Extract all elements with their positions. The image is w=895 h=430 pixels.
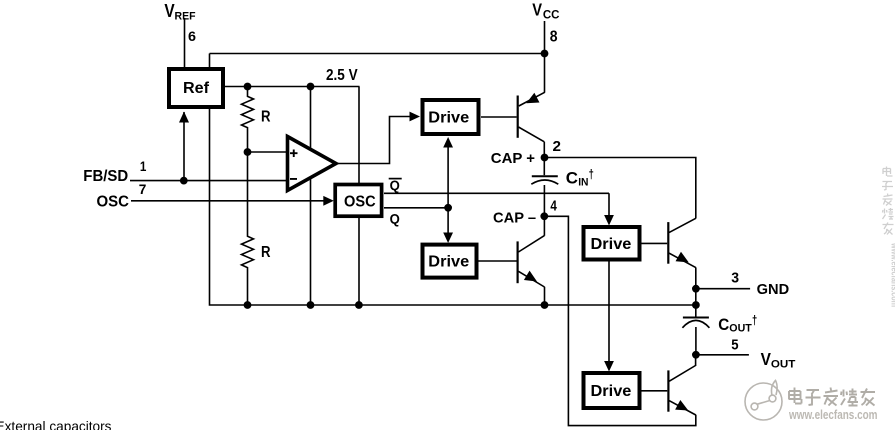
svg-text:www.elecfans.com: www.elecfans.com xyxy=(788,407,877,422)
svg-text:V: V xyxy=(164,1,174,21)
svg-text:IN: IN xyxy=(578,176,588,188)
svg-text:Drive: Drive xyxy=(428,110,469,127)
svg-text:3: 3 xyxy=(731,270,739,287)
svg-text:R: R xyxy=(261,109,271,126)
svg-text:C: C xyxy=(718,316,729,334)
svg-text:1: 1 xyxy=(140,158,147,174)
svg-text:Ref: Ref xyxy=(183,80,210,97)
svg-text:Drive: Drive xyxy=(428,254,469,271)
svg-text:2: 2 xyxy=(553,138,562,155)
svg-text:CAP –: CAP – xyxy=(493,210,536,227)
svg-text:†: † xyxy=(589,167,594,182)
svg-text:OSC: OSC xyxy=(344,193,376,210)
svg-text:OUT: OUT xyxy=(771,359,796,371)
svg-text:7: 7 xyxy=(139,181,147,197)
svg-text:OSC: OSC xyxy=(97,194,130,211)
svg-text:4: 4 xyxy=(550,199,557,215)
svg-text:†: † xyxy=(752,313,757,328)
svg-text:R: R xyxy=(261,244,271,261)
svg-text:8: 8 xyxy=(550,28,558,45)
svg-text:OUT: OUT xyxy=(729,323,752,335)
svg-text:C: C xyxy=(566,170,578,188)
svg-text:6: 6 xyxy=(188,28,196,44)
svg-text:Drive: Drive xyxy=(591,383,632,400)
svg-text:FB/SD: FB/SD xyxy=(83,168,128,185)
svg-text:Q: Q xyxy=(390,212,400,227)
svg-text:V: V xyxy=(532,0,542,20)
svg-text:Drive: Drive xyxy=(591,236,632,253)
svg-text:REF: REF xyxy=(175,11,196,23)
svg-text:CC: CC xyxy=(543,10,560,22)
svg-text:V: V xyxy=(761,349,772,369)
svg-text:5: 5 xyxy=(731,336,738,353)
svg-text:CAP +: CAP + xyxy=(491,150,535,167)
svg-text:Q: Q xyxy=(390,178,400,193)
svg-text:www.elecfans.com: www.elecfans.com xyxy=(889,242,895,307)
svg-text:2.5 V: 2.5 V xyxy=(326,67,358,84)
svg-text:GND: GND xyxy=(757,282,790,298)
svg-text:External capacitors: External capacitors xyxy=(0,418,112,430)
